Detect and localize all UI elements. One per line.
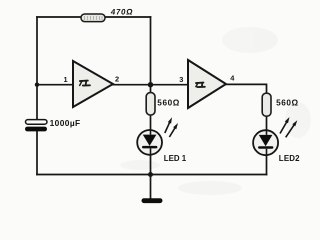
svg-text:LED2: LED2 [279,154,300,163]
svg-text:LED 1: LED 1 [164,154,187,163]
svg-text:560Ω: 560Ω [157,98,180,107]
svg-text:2: 2 [115,75,119,84]
svg-text:1: 1 [64,75,68,84]
svg-text:470Ω: 470Ω [110,7,134,16]
svg-text:3: 3 [179,75,183,84]
svg-text:1000µF: 1000µF [50,118,81,128]
svg-text:560Ω: 560Ω [276,99,299,108]
